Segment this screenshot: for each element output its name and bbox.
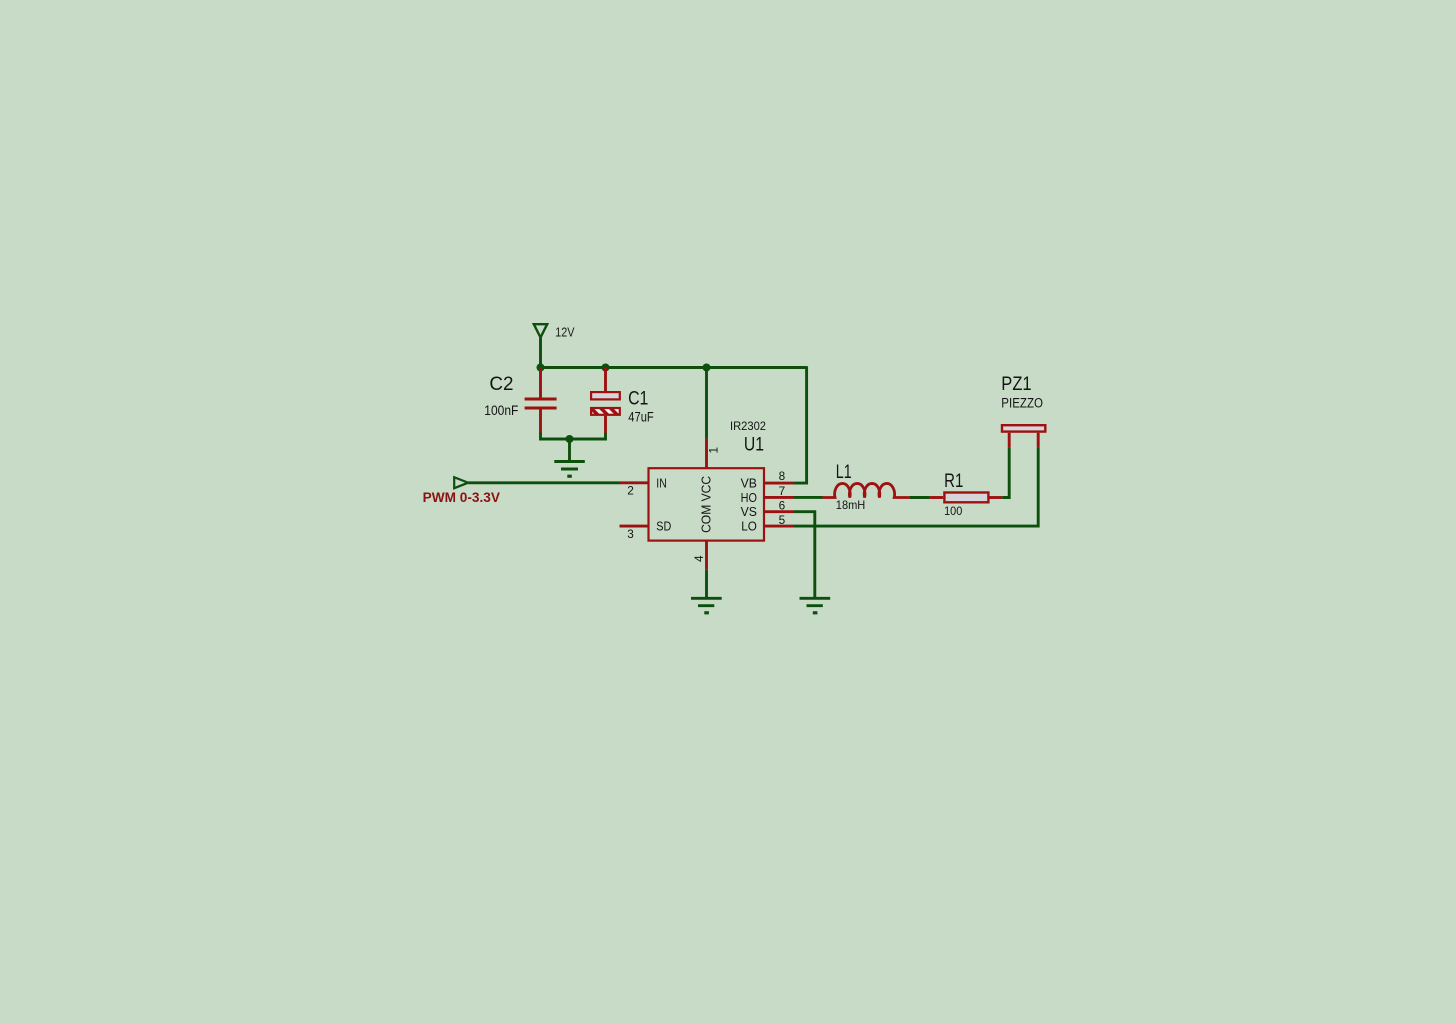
svg-text:HO: HO <box>741 491 758 505</box>
wire L1 to R1 <box>909 496 929 499</box>
svg-text:12V: 12V <box>555 325 575 339</box>
wire VS to ground <box>794 512 815 599</box>
svg-text:PIEZZO: PIEZZO <box>1001 395 1043 410</box>
pin 1 VCC <box>705 368 708 439</box>
svg-text:VB: VB <box>741 477 757 491</box>
piezo PZ1 <box>1002 425 1045 447</box>
wire C2 elbow to ground link <box>541 433 606 439</box>
svg-text:IR2302: IR2302 <box>730 421 766 433</box>
pin 3 SD <box>620 525 649 528</box>
wire HO net <box>794 496 823 499</box>
svg-text:100: 100 <box>944 504 962 518</box>
svg-text:8: 8 <box>779 469 786 483</box>
svg-text:47uF: 47uF <box>628 409 653 424</box>
svg-text:U1: U1 <box>744 435 764 456</box>
supply 12V symbol <box>534 324 547 337</box>
wire top rail <box>539 366 806 369</box>
svg-text:PWM 0-3.3V: PWM 0-3.3V <box>423 490 500 505</box>
resistor R1 <box>929 496 943 499</box>
svg-text:5: 5 <box>779 513 786 527</box>
node junction 1 <box>537 364 545 372</box>
svg-text:COM VCC: COM VCC <box>700 476 714 533</box>
svg-text:3: 3 <box>627 527 634 541</box>
svg-text:PZ1: PZ1 <box>1001 374 1031 395</box>
capacitor C2 <box>525 368 557 435</box>
ground GND2 (COM) <box>691 598 722 613</box>
inductor L1 <box>823 483 910 497</box>
wire 12V stem <box>539 338 542 368</box>
svg-text:7: 7 <box>779 484 786 498</box>
ground GND1 <box>554 439 585 476</box>
wire LO net to piezo right leg <box>794 447 1039 526</box>
pin 5 LO <box>764 525 794 528</box>
node junction 4 <box>566 435 574 443</box>
input arrow PWM <box>454 477 468 488</box>
svg-text:18mH: 18mH <box>836 498 866 512</box>
svg-text:L1: L1 <box>836 462 852 483</box>
svg-text:C2: C2 <box>489 374 513 395</box>
capacitor C1 (polarized) <box>591 368 620 435</box>
svg-text:1: 1 <box>706 447 720 454</box>
svg-text:2: 2 <box>627 484 634 498</box>
svg-text:4: 4 <box>692 555 706 562</box>
wire R1 up to piezo left leg <box>1002 447 1009 497</box>
op-amp U1 IC box <box>649 468 765 540</box>
pin 7 HO <box>764 496 794 499</box>
svg-text:6: 6 <box>779 499 786 513</box>
ground GND3 (VS) <box>800 598 831 613</box>
node junction 2 <box>602 364 610 372</box>
wire IN net <box>468 481 619 484</box>
pin 4 COM <box>705 541 708 570</box>
pin 6 VS <box>764 510 794 513</box>
wire VB drop <box>794 366 807 483</box>
pin 2 IN <box>620 481 649 484</box>
svg-text:100nF: 100nF <box>484 403 518 418</box>
svg-text:SD: SD <box>656 520 671 534</box>
svg-text:IN: IN <box>656 476 667 490</box>
svg-text:R1: R1 <box>944 471 963 492</box>
svg-text:C1: C1 <box>628 389 648 410</box>
pin 8 VB <box>764 482 794 485</box>
svg-text:VS: VS <box>741 505 757 519</box>
svg-text:LO: LO <box>741 520 757 534</box>
node junction 3 <box>703 364 711 372</box>
